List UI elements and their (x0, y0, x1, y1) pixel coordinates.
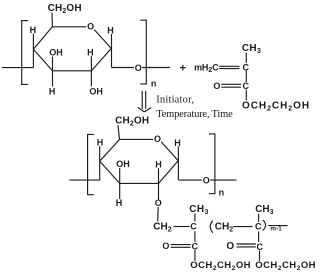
wire C4-C5 edge ring 2 (100, 139, 120, 161)
wire O-C1 edge ring 1 (94, 30, 111, 49)
close parenthesis repeat unit (263, 220, 266, 231)
svg-text:+: + (180, 63, 186, 75)
wire CH3-C bond graft repeat unit (258, 214, 260, 222)
wire C5-O top edge ring 1 (52, 26, 86, 28)
svg-text:H: H (30, 25, 36, 35)
wire chain continuation line (268, 225, 287, 227)
svg-text:O: O (162, 241, 169, 251)
svg-text:OH: OH (89, 86, 103, 96)
svg-text:OH: OH (116, 159, 130, 169)
svg-text:C: C (190, 222, 197, 232)
svg-text:O: O (135, 63, 142, 73)
wire CH3-C bond graft unit 1 (194, 214, 196, 222)
svg-text:m-1: m-1 (270, 225, 282, 232)
right bracket ring 1 (140, 20, 146, 84)
wire C3-C4 edge ring 1 (33, 49, 52, 71)
svg-text:C: C (255, 222, 262, 232)
wire H-C2-O vertical ring 2 (158, 168, 160, 199)
wire C4-C5 edge ring 1 (33, 27, 52, 49)
wire O=C double bond graft repeat unit (237, 243, 256, 245)
svg-text:O: O (87, 22, 94, 32)
wire CH2OH bond ring 1 (51, 13, 53, 27)
svg-text:H: H (87, 47, 94, 57)
svg-text:CH2OH: CH2OH (48, 3, 82, 15)
svg-text:CH2: CH2 (153, 222, 171, 234)
svg-text:H: H (155, 159, 162, 169)
svg-text:CH3: CH3 (242, 43, 261, 55)
wire C1 to glycosidic O ring 1 (112, 67, 135, 69)
reaction arrow double shaft (141, 91, 143, 109)
wire CH2OH bond ring 2 (118, 125, 120, 139)
svg-text:H: H (107, 25, 114, 35)
wire C1 to glycosidic O ring 2 (178, 179, 202, 181)
wire C2-C3 bottom edge ring 1 (53, 70, 92, 72)
svg-text:H: H (174, 138, 181, 148)
svg-text:CH3: CH3 (189, 204, 209, 216)
svg-text:O: O (213, 81, 220, 91)
wire O=C double bond monomer (221, 83, 241, 85)
wire C=C double bond of monomer (219, 65, 239, 67)
svg-text:O: O (226, 241, 234, 252)
wire O to CH2 graft bond (157, 207, 160, 221)
wire O to chain end ring 2 (210, 179, 236, 181)
wire OH-C3-H vertical ring 2 (119, 168, 121, 199)
wire C-O ester bond monomer (245, 90, 247, 101)
wire CH2-C bond graft repeat unit (233, 226, 252, 228)
svg-text:OCH2CH2OH: OCH2CH2OH (242, 100, 310, 112)
left bracket ring 1 (22, 21, 28, 85)
wire C-C bond monomer (245, 71, 247, 82)
wire H-C4 vertical through vertex to backbone ring 2 (99, 146, 101, 180)
wire H-C4 vertical through vertex to backbone ring 1 (32, 34, 34, 68)
wire CH2-C bond graft unit 1 (174, 226, 190, 228)
wire C-C carbonyl bond graft repeat unit (258, 231, 260, 242)
wire C3-C4 edge ring 2 (100, 161, 120, 183)
wire C1-C2 edge ring 1 (91, 48, 111, 71)
svg-text:Initiator,: Initiator, (156, 95, 194, 106)
wire O-C1 edge ring 2 (161, 142, 178, 161)
wire C5-O top edge ring 2 (120, 138, 154, 140)
svg-text:Temperature, Time: Temperature, Time (156, 109, 233, 120)
open parenthesis repeat unit (210, 221, 213, 233)
wire H-C1 vertical to backbone ring 2 (177, 146, 179, 180)
wire ester C-O bond graft unit 1 (194, 250, 196, 261)
svg-text:O: O (203, 175, 210, 185)
wire backbone line left of ring 1 (2, 67, 33, 69)
reaction arrow head (138, 108, 151, 112)
wire H-C2-OH vertical ring 1 (90, 56, 92, 86)
wire H-C1 vertical to backbone ring 1 (111, 34, 113, 68)
svg-text:H: H (116, 198, 123, 208)
svg-text:O: O (155, 198, 162, 208)
svg-text:H2C: H2C (202, 62, 219, 74)
wire backbone stub left of ring 2 (70, 179, 100, 181)
right bracket ring 2 (209, 134, 215, 194)
wire C2-C3 bottom edge ring 2 (120, 182, 159, 184)
wire O=C double bond graft unit 1 (171, 244, 191, 246)
svg-text:CH3: CH3 (255, 204, 273, 216)
left bracket ring 2 (88, 134, 94, 194)
svg-text:n: n (219, 187, 225, 197)
wire OH-C3-H vertical ring 1 (52, 57, 54, 87)
wire CH3-C bond monomer (245, 53, 247, 63)
svg-text:CH2: CH2 (215, 222, 233, 234)
svg-text:O: O (154, 134, 161, 144)
svg-text:H: H (97, 137, 104, 147)
svg-text:CH2OH: CH2OH (115, 116, 149, 128)
svg-text:OH: OH (49, 48, 63, 58)
wire C1-C2 edge ring 2 (159, 161, 179, 184)
svg-text:H: H (49, 86, 56, 96)
svg-text:C: C (192, 241, 199, 251)
svg-text:n: n (151, 78, 157, 88)
wire C-C carbonyl bond graft unit 1 (194, 231, 196, 242)
wire ester C-O bond graft repeat unit (259, 251, 261, 261)
wire O to chain end ring 1 (142, 67, 170, 69)
svg-text:OCH2CH2OH: OCH2CH2OH (190, 260, 251, 272)
svg-text:OCH2CH2OH: OCH2CH2OH (255, 260, 316, 272)
